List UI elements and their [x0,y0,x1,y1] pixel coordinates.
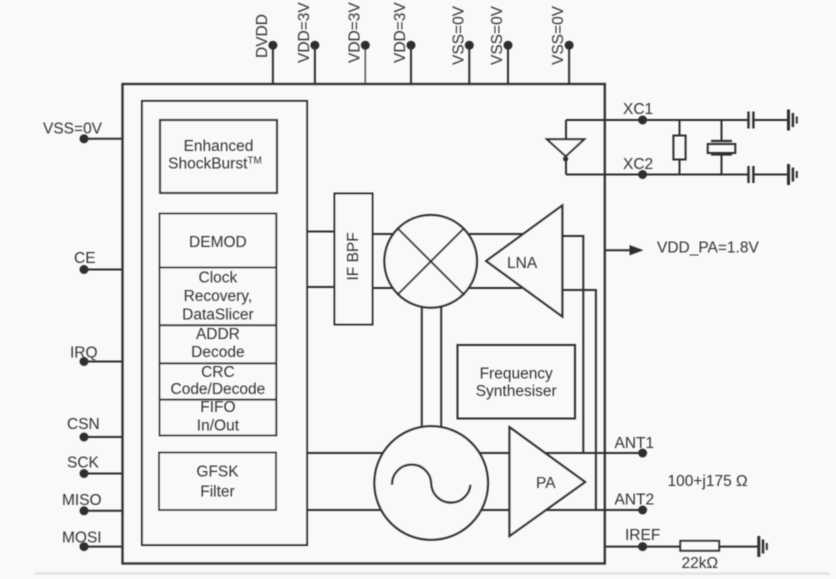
resistor R1 crystal bias [673,136,685,160]
ground XC1 bar1 [787,110,790,131]
svg-text:DataSlicer: DataSlicer [182,306,254,323]
svg-text:DVDD: DVDD [254,14,271,58]
node ANT1 [638,449,647,458]
wire CSN pin [84,436,123,438]
resistor R2 22k [680,541,719,551]
node CSN [80,433,89,442]
ground XC2 bar2 [792,168,795,182]
svg-text:DEMOD: DEMOD [189,234,247,251]
wire xtal amp bottom [565,156,567,174]
wire ANT2 rail [307,509,643,511]
node VSS=0V 1 top [465,41,474,50]
svg-text:XC1: XC1 [623,101,653,118]
wire IRQ pin [84,361,123,363]
wire xtal amp top [565,120,567,139]
wire XC1 [566,119,748,121]
wire VSS=0V pin 2 top [507,45,509,84]
node IREF [638,542,647,551]
svg-text:VSS=0V: VSS=0V [43,121,103,138]
svg-text:VSS=0V: VSS=0V [489,5,506,65]
wire LO pair right [440,300,442,435]
node MISO [80,506,89,515]
capacitor C1 plate left [747,112,749,129]
capacitor C1 plate right [752,112,754,129]
wire crystal top [721,120,723,141]
svg-text:LNA: LNA [507,255,538,272]
node VSS=0V [80,134,89,143]
wire IF stub left bottom [307,286,335,288]
node VSS=0V 2 top [504,41,513,50]
svg-text:GFSK: GFSK [196,463,239,480]
wire VDD=3V pin 3 [410,45,412,84]
svg-text:Filter: Filter [200,483,234,500]
wire MOSI pin [84,546,123,548]
node IRQ [80,357,89,366]
svg-text:Clock: Clock [199,270,238,287]
oscillator sine [392,465,471,503]
wire VDD=3V pin 1 [314,45,316,84]
wire IF stub left top [307,231,335,233]
node VDD=3V 2 [361,41,370,50]
crystal Y1 bottom plate [711,153,732,155]
ground XC2 bar3 [796,171,798,178]
svg-text:VDD=3V: VDD=3V [392,2,409,63]
svg-text:SCK: SCK [67,455,100,472]
svg-text:FIFO: FIFO [200,399,235,416]
wire IF to mixer bottom [373,287,523,289]
svg-text:ANT1: ANT1 [615,435,655,452]
capacitor C2 plate left [747,166,749,183]
node MOSI [80,542,89,551]
node VDD=3V 1 [310,41,319,50]
svg-text:22kΩ: 22kΩ [682,555,719,572]
wire resistor bottom [679,160,681,175]
ground XC1 bar3 [796,117,798,124]
svg-text:Frequency: Frequency [480,366,553,383]
node DVDD [268,41,277,50]
oscillator VCO [374,426,488,540]
wire VSS=0V pin 1 top [468,45,470,84]
mixer X stroke 2 [397,228,464,295]
svg-text:VDD=3V: VDD=3V [296,2,313,63]
block IF BPF [335,194,373,325]
node VDD=3V 3 [407,41,416,50]
LNA amplifier [486,206,562,317]
svg-text:Synthesiser: Synthesiser [476,383,557,400]
divider Clock/ADDR [160,324,277,326]
node XC1 [638,116,647,125]
svg-text:CSN: CSN [67,416,100,433]
wire LNA input stub bottom [562,290,596,510]
svg-text:CE: CE [74,250,96,267]
inner box [142,101,307,545]
ground IREF bar3 [766,543,768,550]
ground IREF bar1 [757,536,760,557]
wire VSS=0V pin 3 top [568,45,570,84]
svg-text:PA: PA [536,475,556,492]
wire C1 to ground [753,119,787,121]
capacitor C2 plate right [752,166,754,183]
svg-text:MOSI: MOSI [62,530,102,547]
svg-text:ANT2: ANT2 [615,492,655,509]
svg-text:IF BPF: IF BPF [345,232,362,280]
node CE [80,265,89,274]
wire VDD_PA [605,249,631,251]
svg-text:XC2: XC2 [623,156,653,173]
svg-text:IREF: IREF [625,527,660,544]
wire IF to mixer top [373,233,529,235]
svg-text:Enhanced: Enhanced [184,138,254,155]
svg-text:VDD_PA=1.8V: VDD_PA=1.8V [657,240,759,257]
ghost line bottom [35,572,830,575]
svg-text:MISO: MISO [62,492,102,509]
crystal Y1 top plate [711,140,732,142]
divider DEMOD/Clock [160,267,277,269]
ground XC2 bar1 [787,164,790,185]
crystal Y1 body [708,144,736,153]
svg-text:CRC: CRC [201,364,235,381]
block DEMOD stack [160,214,277,436]
svg-text:Decode: Decode [191,344,244,361]
block Enhanced ShockBurst [160,120,277,193]
node SCK [80,469,89,478]
node ANT2 [638,506,647,515]
xtal amp output dot [563,156,568,161]
wire C2 to ground [753,174,787,176]
divider CRC/FIFO [160,399,277,401]
wire crystal bottom [721,155,723,175]
node XC2 [638,170,647,179]
ground XC1 bar2 [792,113,795,127]
node VSS=0V 3 top [565,41,574,50]
block GFSK Filter [159,453,276,511]
wire resistor top [679,120,681,136]
svg-text:Recovery,: Recovery, [184,288,253,305]
wire DVDD pin [272,45,274,84]
wire LO pair left [421,300,423,435]
svg-text:VSS=0V: VSS=0V [450,5,467,65]
divider ADDR/CRC [160,362,277,364]
svg-text:VDD=3V: VDD=3V [346,2,363,63]
chip outline U1 [123,84,605,564]
wire R2 to ground [719,546,757,548]
mixer X stroke 1 [397,228,464,295]
wire ANT1 rail [307,452,643,454]
wire IREF [605,546,681,548]
svg-text:VSS=0V: VSS=0V [550,5,567,65]
svg-text:IRQ: IRQ [70,345,98,362]
wire XC2 [566,174,748,176]
ground IREF bar2 [762,540,765,554]
svg-text:100+j175 Ω: 100+j175 Ω [668,473,748,490]
block Frequency Synthesiser [458,345,576,419]
wire CE pin [84,269,123,271]
PA amplifier [510,427,586,536]
svg-text:Code/Decode: Code/Decode [171,381,266,398]
mixer [384,215,477,308]
wire MISO pin [84,510,123,512]
wire SCK pin [84,473,123,475]
wire VDD=3V pin 2 [364,45,366,84]
wire LNA input stub top [562,236,583,453]
svg-text:In/Out: In/Out [197,417,240,434]
arrow VDD_PA [630,245,644,255]
svg-text:ADDR: ADDR [196,326,240,343]
xtal oscillator amplifier [547,139,584,156]
wire VSS=0V pin [84,138,123,140]
